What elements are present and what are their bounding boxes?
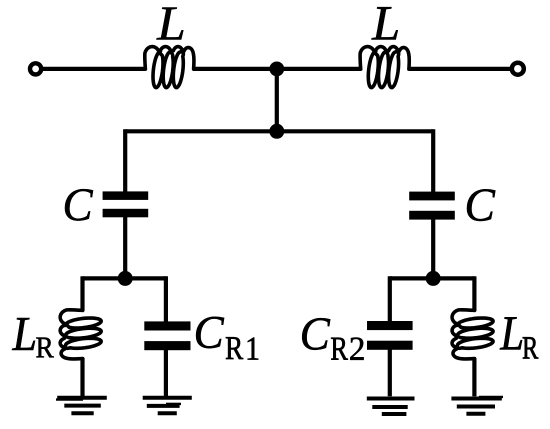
- inductor LR (right shunt, vertical coil): [452, 310, 493, 359]
- label LR left: L: [12, 318, 35, 350]
- label L (right inductor): [371, 7, 397, 39]
- wire: capacitor C left to left resonator node: [123, 217, 127, 278]
- wire: inductor L2 to right terminal: [409, 67, 511, 71]
- node: top center junction: [269, 62, 284, 77]
- capacitor C left (top plate): [103, 191, 149, 200]
- wire: inductor LR left to ground: [80, 358, 84, 396]
- wire: down to inductor LR right: [472, 276, 476, 311]
- wire: bus right corner down to capacitor C right: [431, 129, 435, 192]
- wire: capacitor CR1 to ground: [164, 350, 168, 397]
- inductor LR (left shunt, vertical coil): [60, 310, 101, 359]
- wire: left terminal to inductor L1: [43, 67, 146, 71]
- label C (right shunt capacitor): [467, 189, 495, 221]
- label CR1: C: [196, 317, 224, 348]
- label LR right: subscript R: [523, 337, 539, 358]
- wire: down to capacitor CR1: [164, 276, 168, 322]
- label CR2: subscript 2: [350, 337, 363, 359]
- label CR2: C: [302, 318, 330, 350]
- wire: right resonator bus: [390, 276, 475, 280]
- label CR1: subscript 1: [248, 338, 258, 360]
- wire: down to inductor LR left: [80, 276, 84, 311]
- label LR left: subscript R: [36, 338, 53, 358]
- port terminal right (open circle): [512, 63, 524, 75]
- wire: shunt bus horizontal: [125, 129, 433, 133]
- ground under left LR: [57, 396, 107, 400]
- capacitor CR2 (bottom plate): [367, 341, 413, 350]
- node: right resonator junction: [426, 271, 441, 286]
- wire: capacitor CR2 to ground: [388, 349, 392, 396]
- wire: down to capacitor CR2: [388, 276, 392, 321]
- capacitor C left (bottom plate): [103, 209, 149, 218]
- inductor L1 (left series inductor): [145, 47, 194, 88]
- wire: inductor LR right to ground: [472, 358, 476, 396]
- wire: inductor L1 to top center node: [193, 67, 277, 71]
- label L (left inductor): [156, 8, 183, 40]
- wire: bus left corner down to capacitor C left: [123, 129, 127, 192]
- node: left resonator junction: [118, 271, 133, 286]
- label CR1: subscript R: [226, 337, 243, 359]
- label LR right: L: [500, 317, 522, 349]
- wire: left resonator bus: [83, 276, 166, 280]
- inductor L2 (right series inductor): [360, 47, 409, 88]
- port terminal left (open circle): [30, 63, 41, 74]
- wire: capacitor C right to right resonator node: [431, 219, 435, 278]
- wire: top node down to shunt bus: [275, 69, 279, 131]
- ground under right LR: [451, 397, 501, 401]
- wire: top center node to inductor L2: [277, 67, 361, 71]
- capacitor C right (bottom plate): [409, 211, 455, 220]
- node: shunt bus junction: [269, 124, 284, 139]
- ground under CR2: [367, 397, 415, 401]
- capacitor CR1 (bottom plate): [144, 341, 190, 350]
- capacitor CR2 (top plate): [367, 321, 413, 330]
- capacitor C right (top plate): [409, 192, 455, 201]
- capacitor CR1 (top plate): [144, 321, 190, 330]
- label C (left shunt capacitor): [65, 189, 93, 220]
- label CR2: subscript R: [331, 338, 348, 360]
- ground under CR1: [143, 396, 192, 400]
